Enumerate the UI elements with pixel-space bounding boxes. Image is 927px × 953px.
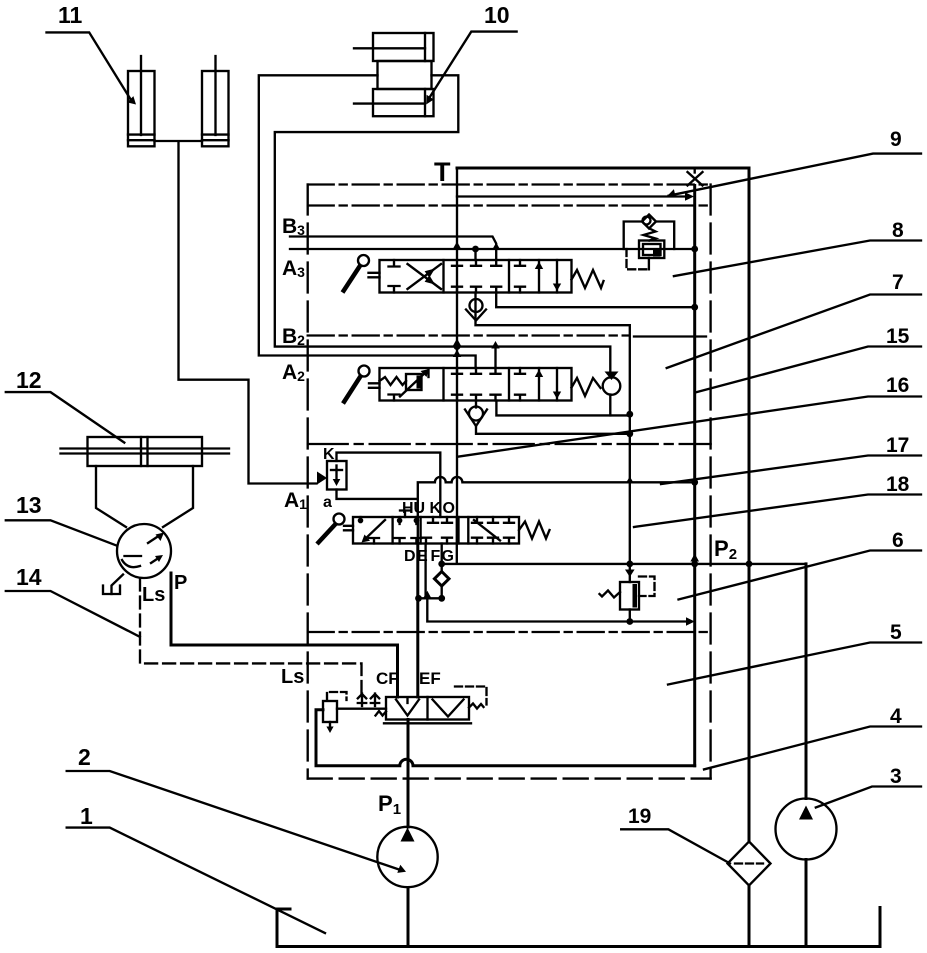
label CF <box>376 669 399 688</box>
wire from cylinders 11 down to A1 port <box>155 141 317 484</box>
steering motor 13 <box>117 524 171 578</box>
svg-text:U: U <box>414 500 426 517</box>
steering cylinder 12 <box>61 437 230 527</box>
check valve right of valve 7 <box>603 372 621 395</box>
svg-text:16: 16 <box>886 374 909 397</box>
label 17 and leader <box>661 434 921 484</box>
label a at pilot valve <box>323 494 332 511</box>
label 10 and leader <box>426 2 516 104</box>
wire check7 outlet <box>476 401 630 434</box>
port label A3 <box>282 257 305 280</box>
labels D E F G <box>404 548 454 565</box>
svg-text:9: 9 <box>890 128 902 151</box>
label 16 and leader <box>459 374 921 457</box>
svg-text:P: P <box>174 572 187 594</box>
svg-text:D: D <box>404 548 416 565</box>
svg-text:11: 11 <box>58 2 83 28</box>
label 8 and leader <box>674 219 921 276</box>
svg-text:8: 8 <box>892 219 904 242</box>
valve block solid frame top edge <box>457 167 749 170</box>
pilot triangle into K valve <box>317 472 327 485</box>
wire return from A1 valve to rail with arrow <box>423 591 695 626</box>
check valve under valve 8 <box>466 299 486 321</box>
wire B2 check outlet down <box>609 395 611 416</box>
label 14 and leader <box>6 564 140 637</box>
port label B3 <box>282 215 305 238</box>
svg-text:18: 18 <box>886 473 910 496</box>
check diamond under G port <box>434 572 449 587</box>
svg-text:4: 4 <box>890 705 902 728</box>
svg-text:E: E <box>417 548 428 565</box>
wire valve7 bottom return <box>496 401 629 416</box>
valve 8 lever <box>343 255 380 293</box>
wire comp10 left port to A2 <box>259 75 476 368</box>
wire B3 work port line <box>290 237 496 261</box>
svg-text:12: 12 <box>16 367 42 393</box>
valve 7 internals (section with pressure reducer) <box>380 368 562 401</box>
valve A1 directional valve body <box>353 517 519 544</box>
wire K valve bottom loop to H port <box>337 490 417 518</box>
label 3 and leader <box>816 765 921 808</box>
K pilot valve body <box>327 461 347 490</box>
label 5 and leader <box>668 621 921 685</box>
wire tall rail to filter (right edge of solid frame) <box>748 168 751 947</box>
svg-text:6: 6 <box>892 529 904 552</box>
valve A1 lever <box>317 514 353 545</box>
Ls relief valve at priority <box>323 692 386 733</box>
svg-text:5: 5 <box>890 621 902 644</box>
port label P1 <box>378 791 401 818</box>
label 12 and leader <box>6 367 125 443</box>
motor left drain to tank symbol <box>103 575 123 595</box>
twin cylinders 11 <box>128 56 229 146</box>
valve 7 spring <box>572 378 601 396</box>
svg-text:O: O <box>443 500 455 517</box>
labels H U K O <box>402 500 455 517</box>
wire A1 valve bottom ports junction <box>418 544 442 698</box>
valve 7 directional valve body <box>380 368 572 401</box>
dash-dot separator y=335.5 <box>308 334 629 336</box>
wire P1 pump suction/pressure vertical <box>407 720 410 947</box>
dash-dot separator y=632 <box>308 631 708 633</box>
wire A3 work port line <box>290 249 695 260</box>
tank <box>277 908 880 947</box>
priority valve body <box>384 697 471 723</box>
K pilot valve internals <box>331 466 342 487</box>
port label A2 <box>282 361 305 384</box>
svg-text:EF: EF <box>419 669 441 688</box>
valve 7 lever <box>343 366 380 404</box>
label 1 and leader <box>67 803 325 933</box>
svg-text:7: 7 <box>892 271 904 294</box>
flow arrows on T rail at valve 7 <box>453 339 500 358</box>
junction dots <box>415 246 752 625</box>
svg-text:14: 14 <box>16 564 42 590</box>
dashed block boundary left <box>307 185 309 779</box>
filter 19 <box>728 842 771 886</box>
port label P2 <box>714 536 737 563</box>
svg-text:19: 19 <box>628 805 651 828</box>
svg-text:H: H <box>402 500 414 517</box>
dashed block boundary right <box>709 185 711 779</box>
svg-text:17: 17 <box>886 434 909 457</box>
svg-text:10: 10 <box>484 2 510 28</box>
svg-text:CF: CF <box>376 669 399 688</box>
svg-text:13: 13 <box>16 492 42 518</box>
port label Ls at block <box>281 666 304 688</box>
svg-text:Ls: Ls <box>142 584 165 606</box>
svg-text:Ls: Ls <box>281 666 304 688</box>
pilot relief valve (near 8/9) <box>624 215 675 270</box>
dash-dot separator y=184.5 <box>308 183 711 185</box>
port label T <box>434 157 451 187</box>
label 11 and leader <box>47 2 137 105</box>
dash-dot separator y=444 <box>308 443 711 445</box>
valve 8 directional valve body <box>380 260 572 293</box>
wire steering P line to CF port <box>171 573 398 697</box>
port label B2 <box>282 325 305 348</box>
pump 3 <box>776 799 837 860</box>
port label Ls at motor <box>142 584 165 606</box>
valve 8 internals <box>389 260 562 293</box>
port label P at motor <box>174 572 187 594</box>
wire valve7 B2 port <box>494 345 496 368</box>
pump P1 (component 2) <box>377 827 437 887</box>
label 13 and leader <box>6 492 117 546</box>
wire comp10 right port to B2 <box>275 75 611 377</box>
priority valve internals <box>376 687 487 717</box>
label EF <box>419 669 441 688</box>
svg-text:3: 3 <box>890 765 902 788</box>
label 2 and leader <box>67 744 406 873</box>
wire check8 loop down the mid rail <box>476 293 630 564</box>
svg-text:T: T <box>434 157 451 187</box>
plugged port X at top of return rail <box>688 168 703 186</box>
label 7 and leader <box>667 271 921 368</box>
wire valve8 bottom return to rail <box>496 293 695 308</box>
component 10 (ram assembly) <box>354 33 434 116</box>
wire junction/load-sense line y=482 to rail <box>337 453 695 517</box>
label K at pilot valve <box>323 446 335 463</box>
svg-text:2: 2 <box>78 744 91 770</box>
valve A1 internals <box>358 517 514 544</box>
svg-text:K: K <box>430 500 442 517</box>
valve 8 spring <box>572 270 604 288</box>
label 19 and leader <box>621 805 730 863</box>
Ls dashed pilot route <box>140 579 362 694</box>
wire line 9 (bleed line) with arrow into return rail <box>457 192 694 201</box>
svg-text:15: 15 <box>886 325 910 348</box>
wire P2 line from A1 valve to pump 3 <box>442 544 806 564</box>
svg-text:K: K <box>323 446 335 463</box>
short solid segment right of separator <box>634 335 706 337</box>
label 6 and leader <box>679 529 922 600</box>
check valve under valve 7 <box>465 407 487 427</box>
svg-text:a: a <box>323 494 332 511</box>
label 4 and leader <box>704 705 921 769</box>
label 18 and leader <box>634 473 921 527</box>
T rail (left edge of frame, down through valves) <box>456 168 458 517</box>
twin pilot check symbols <box>358 694 379 707</box>
dashed block boundary bottom <box>308 777 711 779</box>
relief valve 6 <box>600 564 655 622</box>
valve A1 spring <box>519 522 550 539</box>
port label A1 <box>284 489 307 512</box>
dash-dot separator y=205.5 <box>308 204 711 206</box>
wire pump3 vertical <box>805 564 808 947</box>
label 9 and leader <box>667 128 921 197</box>
flow arrows on T rail at valve 8 <box>453 242 501 251</box>
return rail and block bottom return line with hop over P1 line <box>316 186 695 766</box>
svg-text:1: 1 <box>80 803 93 829</box>
label 15 and leader <box>695 325 921 393</box>
arrow up on return rail at P2 junction <box>690 554 699 562</box>
